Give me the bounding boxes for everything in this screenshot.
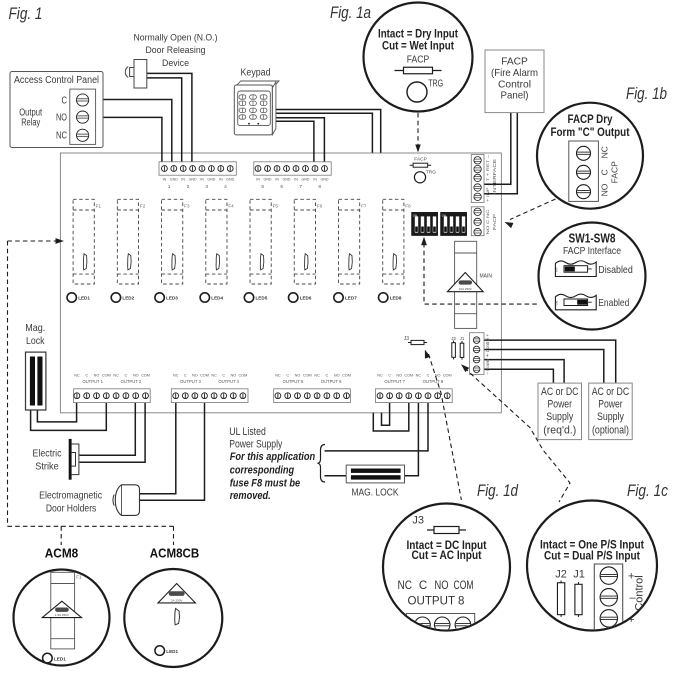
svg-text:C: C [388,374,391,378]
svg-text:+ INP – T + RET –: + INP – T + RET – [485,154,490,202]
svg-text:Relay: Relay [21,117,40,128]
svg-text:NC: NC [600,146,610,158]
svg-text:LED8: LED8 [390,296,402,301]
svg-text:ACM8: ACM8 [45,547,79,561]
svg-text:Strike: Strike [35,461,59,473]
svg-text:NC: NC [398,580,413,592]
svg-text:(req'd.): (req'd.) [543,424,576,436]
svg-text:OUTPUT 3: OUTPUT 3 [180,379,201,384]
svg-text:Panel): Panel) [501,91,529,102]
svg-text:OUTPUT 2: OUTPUT 2 [121,379,142,384]
svg-text:OUTPUT 5: OUTPUT 5 [283,379,304,384]
svg-text:AC or DC: AC or DC [541,386,579,398]
svg-text:Electromagnetic: Electromagnetic [39,490,102,502]
svg-text:F4: F4 [228,204,234,209]
svg-text:C: C [286,374,289,378]
svg-text:GND: GND [189,178,197,182]
svg-text:INTERFACE: INTERFACE [492,159,497,194]
svg-text:10A 250V: 10A 250V [459,287,472,291]
svg-text:C: C [184,374,187,378]
svg-text:LED1: LED1 [78,296,90,301]
svg-text:J2: J2 [451,336,456,341]
svg-text:C: C [85,374,88,378]
svg-text:NC: NC [377,374,383,378]
svg-text:MAG. LOCK: MAG. LOCK [352,487,399,499]
svg-text:NC: NC [211,374,217,378]
svg-text:SW1-SW8: SW1-SW8 [569,232,616,246]
svg-text:1.5A 250V: 1.5A 250V [55,613,69,617]
svg-text:Power Supply: Power Supply [229,439,282,451]
svg-text:LED3: LED3 [166,296,178,301]
svg-text:OUTPUT 7: OUTPUT 7 [384,379,405,384]
svg-text:4: 4 [224,184,227,190]
svg-text:ON: ON [555,301,559,306]
svg-text:F3: F3 [184,204,190,209]
svg-text:COM: COM [342,374,351,378]
svg-text:NC: NC [314,374,320,378]
svg-text:AC or DC: AC or DC [592,386,630,398]
svg-text:Device: Device [162,58,189,69]
svg-text:Normally Open (N.O.): Normally Open (N.O.) [134,33,218,44]
svg-text:C: C [62,95,68,106]
svg-text:UL Listed: UL Listed [229,426,265,438]
svg-text:NO: NO [334,374,340,378]
svg-text:IN: IN [200,178,204,182]
svg-text:MAIN: MAIN [480,274,493,280]
svg-text:ON: ON [555,268,559,273]
svg-text:COM: COM [404,374,413,378]
svg-text:J3: J3 [404,336,410,342]
svg-text:NO: NO [295,374,301,378]
svg-text:C: C [125,374,128,378]
svg-text:FACP: FACP [414,157,427,163]
svg-text:Mag.: Mag. [25,322,45,334]
svg-text:NO: NO [396,374,402,378]
svg-text:– Power +: – Power + [485,354,490,375]
svg-text:2: 2 [187,184,190,190]
svg-text:FACP: FACP [610,161,620,184]
svg-text:FACP: FACP [492,214,497,230]
svg-text:NO: NO [133,374,139,378]
svg-text:GND: GND [207,178,215,182]
svg-text:Cut = AC Input: Cut = AC Input [412,550,482,562]
svg-text:7: 7 [299,184,302,190]
svg-text:F8: F8 [405,204,411,209]
svg-text:TRG: TRG [428,78,443,90]
svg-text:NC: NC [56,131,67,142]
svg-text:Fig. 1b: Fig. 1b [626,85,667,103]
svg-text:OUTPUT 4: OUTPUT 4 [218,379,239,384]
svg-text:Intact = Dry Input: Intact = Dry Input [378,29,458,41]
svg-text:IN: IN [181,178,185,182]
svg-text:1: 1 [168,184,171,190]
svg-text:Door Holders: Door Holders [46,503,97,515]
svg-text:Cut = Wet Input: Cut = Wet Input [382,41,454,53]
svg-text:Control: Control [634,575,646,610]
svg-text:J2: J2 [555,569,567,581]
svg-text:OUTPUT 1: OUTPUT 1 [82,379,103,384]
svg-text:fuse F8 must be: fuse F8 must be [230,478,301,490]
svg-text:COM: COM [141,374,150,378]
svg-text:COM: COM [303,374,312,378]
svg-text:COM: COM [200,374,209,378]
svg-text:LED7: LED7 [345,296,357,301]
svg-text:J1: J1 [460,336,465,341]
svg-text:C: C [427,374,430,378]
svg-text:NO: NO [600,183,610,196]
svg-text:C: C [326,374,329,378]
svg-text:FACP: FACP [407,53,430,65]
svg-text:COM: COM [102,374,111,378]
svg-text:Door Releasing: Door Releasing [146,45,206,56]
svg-text:Power: Power [598,399,623,411]
svg-text:F1: F1 [76,575,82,580]
svg-text:NC: NC [173,374,179,378]
svg-text:NO: NO [56,113,67,124]
svg-text:LED4: LED4 [211,296,223,301]
svg-text:3: 3 [205,184,208,190]
svg-text:F6: F6 [317,204,323,209]
svg-text:Control: Control [498,79,531,90]
svg-text:For this application: For this application [230,451,316,463]
svg-text:removed.: removed. [230,490,271,502]
svg-text:C: C [600,169,610,175]
svg-text:COM: COM [238,374,247,378]
svg-text:GND: GND [302,178,310,182]
svg-text:FACP Interface: FACP Interface [563,245,621,257]
svg-text:Fig. 1c: Fig. 1c [627,482,669,500]
svg-text:Fig. 1a: Fig. 1a [330,4,371,22]
svg-text:FACP: FACP [501,57,528,68]
svg-text:IN: IN [163,178,167,182]
svg-text:Supply: Supply [597,411,624,423]
svg-text:LED1: LED1 [54,656,66,661]
svg-text:LED2: LED2 [122,296,134,301]
svg-text:ACM8CB: ACM8CB [150,547,200,561]
svg-text:IN: IN [294,178,298,182]
svg-text:C: C [222,374,225,378]
svg-text:Access Control Panel: Access Control Panel [14,75,99,86]
svg-text:5: 5 [261,184,264,190]
svg-text:Disabled: Disabled [598,264,633,276]
svg-text:NC: NC [74,374,80,378]
svg-text:+: + [628,614,634,626]
svg-text:IN: IN [313,178,317,182]
svg-text:8: 8 [318,184,321,190]
svg-text:GND: GND [283,178,291,182]
svg-text:COM: COM [454,580,474,592]
svg-text:NO: NO [230,374,236,378]
svg-text:NO: NO [192,374,198,378]
svg-text:OUTPUT 6: OUTPUT 6 [321,379,342,384]
svg-text:IN: IN [256,178,260,182]
svg-text:Fig. 1d: Fig. 1d [477,482,519,500]
svg-text:IN: IN [219,178,223,182]
svg-text:Power: Power [548,399,573,411]
svg-text:Enabled: Enabled [598,297,629,309]
svg-text:COM: COM [443,374,452,378]
svg-text:Cut = Dual P/S Input: Cut = Dual P/S Input [544,551,640,563]
svg-text:NO C NC: NO C NC [485,209,490,234]
svg-text:GND: GND [321,178,329,182]
svg-text:NC: NC [275,374,281,378]
svg-text:Lock: Lock [26,335,45,347]
svg-text:corresponding: corresponding [230,464,295,476]
svg-text:(optional): (optional) [592,424,629,436]
svg-text:J3: J3 [412,515,424,527]
svg-text:LED1: LED1 [166,649,178,654]
svg-text:(Fire Alarm: (Fire Alarm [491,68,538,79]
svg-text:NC: NC [416,374,422,378]
svg-text:GND: GND [226,178,234,182]
svg-text:NO: NO [94,374,100,378]
svg-text:GND: GND [264,178,272,182]
svg-text:OUTPUT 8: OUTPUT 8 [408,594,465,608]
svg-text:F2: F2 [140,204,146,209]
svg-text:Electric: Electric [33,448,62,460]
svg-text:F5: F5 [273,204,279,209]
svg-text:GND: GND [170,178,178,182]
svg-text:6: 6 [280,184,283,190]
svg-text:Fig. 1: Fig. 1 [9,5,43,23]
svg-text:IN: IN [275,178,279,182]
svg-text:TRG: TRG [426,170,436,176]
svg-text:2A 250V: 2A 250V [171,598,182,602]
svg-text:LED5: LED5 [256,296,268,301]
svg-text:FACP Dry: FACP Dry [568,112,613,126]
svg-text:F7: F7 [361,204,367,209]
svg-text:OUTPUT 8: OUTPUT 8 [423,379,444,384]
svg-text:C: C [419,580,427,592]
svg-text:Supply: Supply [546,411,573,423]
svg-text:NO: NO [435,580,449,592]
svg-text:NC: NC [113,374,119,378]
svg-text:Form "C" Output: Form "C" Output [551,125,630,139]
svg-text:Keypad: Keypad [241,68,271,79]
svg-text:– Control +: – Control + [485,333,490,356]
svg-text:F1: F1 [96,204,102,209]
svg-text:J1: J1 [573,569,585,581]
svg-text:LED6: LED6 [300,296,312,301]
